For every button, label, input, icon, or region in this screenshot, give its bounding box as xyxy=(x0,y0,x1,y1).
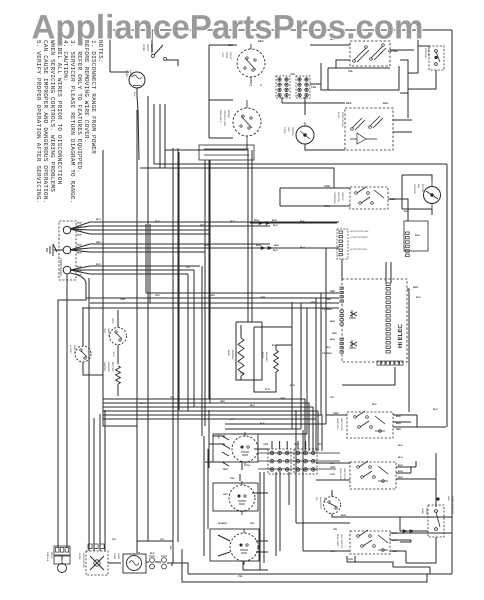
oven door switch xyxy=(428,505,444,537)
surface elem box RR xyxy=(213,483,258,511)
svg-text:RED: RED xyxy=(210,294,215,297)
svg-text:LATCH SW INPUT: LATCH SW INPUT xyxy=(350,236,369,239)
svg-text:RED: RED xyxy=(217,434,220,439)
wire left edge x204 xyxy=(203,436,205,556)
svg-text:YEL: YEL xyxy=(330,396,335,399)
conv fan motor xyxy=(296,126,314,144)
svg-text:BLU: BLU xyxy=(250,404,255,407)
wire x146b xyxy=(145,224,147,293)
svg-text:BLU: BLU xyxy=(274,244,279,247)
svg-text:TAN: TAN xyxy=(290,73,295,76)
wire x178 xyxy=(177,148,179,542)
svg-text:5. VERIFY PROPER OPERATION AFT: 5. VERIFY PROPER OPERATION AFTER SERVICI… xyxy=(35,40,42,203)
svg-text:RED: RED xyxy=(96,241,101,244)
wire x188b xyxy=(187,274,189,411)
svg-text:BLK: BLK xyxy=(272,219,277,222)
svg-text:BLK: BLK xyxy=(273,224,278,227)
svg-text:BAKE: BAKE xyxy=(227,350,230,356)
wire P3 tail xyxy=(58,273,86,548)
svg-text:BLK: BLK xyxy=(398,444,403,447)
svg-text:RED: RED xyxy=(332,332,337,335)
wire x154 xyxy=(153,104,155,164)
svg-text:N: N xyxy=(260,83,262,87)
svg-text:COOLING: COOLING xyxy=(424,48,427,58)
wire on ind xyxy=(332,490,452,517)
junction arrows right xyxy=(400,530,428,532)
svg-text:BLK: BLK xyxy=(326,346,331,349)
wire surf lf xyxy=(218,535,268,570)
svg-text:DOOR LATCH SW: DOOR LATCH SW xyxy=(350,230,369,233)
wire x103 xyxy=(103,150,137,426)
svg-text:BLK: BLK xyxy=(77,270,82,273)
HI ELEC diode 1 xyxy=(350,310,357,318)
lock module xyxy=(54,546,70,555)
svg-text:GRY: GRY xyxy=(155,294,160,297)
svg-text:ELEMENT: ELEMENT xyxy=(231,350,234,361)
svg-text:ON: ON xyxy=(315,497,318,501)
svg-text:BLK: BLK xyxy=(372,403,377,406)
wire latch comb down xyxy=(342,259,391,283)
cfs frame xyxy=(400,60,408,118)
surface element RR2 xyxy=(229,485,255,511)
cooling fan motor xyxy=(424,187,441,204)
svg-text:BLK: BLK xyxy=(260,422,265,425)
terminal pair B xyxy=(162,558,167,563)
svg-text:ELEMENT: ELEMENT xyxy=(265,352,268,363)
svg-text:BLK: BLK xyxy=(140,402,145,405)
wire bus L2-a xyxy=(90,265,200,267)
wire col x280 xyxy=(279,472,281,551)
wire col x260 xyxy=(259,472,261,570)
svg-text:BLU: BLU xyxy=(398,456,403,459)
wire bus y415 xyxy=(103,415,322,451)
svg-text:GRN: GRN xyxy=(310,301,315,304)
wire bus L2-b xyxy=(90,269,194,271)
wire blocks in xyxy=(272,441,306,449)
svg-text:YEL: YEL xyxy=(230,477,235,480)
oven light switch xyxy=(151,30,153,52)
terminal block screw P2 xyxy=(63,246,71,254)
wire x165 xyxy=(164,104,166,168)
hi-limit switch xyxy=(75,346,91,362)
HI ELEC box xyxy=(342,279,407,362)
svg-text:OVEN: OVEN xyxy=(421,508,424,515)
wire rr xyxy=(326,415,446,427)
wire fan P3 xyxy=(70,266,90,270)
svg-text:YEL: YEL xyxy=(170,396,175,399)
svg-text:BLK: BLK xyxy=(77,230,82,233)
svg-text:BLK: BLK xyxy=(398,476,403,479)
oven relay board xyxy=(345,108,393,150)
wire x252 xyxy=(251,150,253,322)
svg-text:BLK: BLK xyxy=(416,296,421,299)
wire hi elec right xyxy=(342,289,409,412)
svg-text:YEL: YEL xyxy=(250,522,255,525)
svg-text:BLK: BLK xyxy=(96,263,101,266)
svg-text:YEL: YEL xyxy=(238,575,243,578)
svg-text:BLK: BLK xyxy=(77,248,82,251)
svg-text:GRN: GRN xyxy=(111,318,114,324)
svg-text:BLK: BLK xyxy=(254,219,259,222)
svg-text:BLK: BLK xyxy=(77,244,82,247)
HI ELEC pin strip left 2 xyxy=(340,310,343,312)
wire x105 drop xyxy=(104,410,106,551)
svg-text:YEL: YEL xyxy=(240,372,245,375)
svg-text:LAMP: LAMP xyxy=(129,70,132,77)
svg-text:UNIT SWITCH: UNIT SWITCH xyxy=(340,534,343,549)
svg-text:BLK: BLK xyxy=(398,464,403,467)
TOD switch xyxy=(110,328,127,345)
wire right border xyxy=(451,30,453,574)
svg-text:TAN: TAN xyxy=(311,86,316,89)
wire x202 xyxy=(201,266,203,436)
HI ELEC diode 2 xyxy=(350,340,357,348)
svg-text:BLK: BLK xyxy=(222,522,227,525)
svg-text:OVEN: OVEN xyxy=(113,553,116,560)
svg-text:ORANGE: ORANGE xyxy=(107,362,110,372)
svg-text:LIMITED: LIMITED xyxy=(103,362,106,371)
connector strip right xyxy=(404,221,428,251)
svg-text:GRY: GRY xyxy=(223,493,228,496)
svg-text:BLU: BLU xyxy=(398,470,403,473)
wire door sw tail xyxy=(400,517,436,574)
wire lamp feed xyxy=(110,71,129,73)
wire col x276 xyxy=(275,472,277,556)
svg-text:YEL/BLK: YEL/BLK xyxy=(322,308,333,311)
svg-text:LABEL ALL WIRES PRIOR TO DISCO: LABEL ALL WIRES PRIOR TO DISCONNECTION xyxy=(56,40,63,185)
svg-text:LIGHT: LIGHT xyxy=(323,497,326,504)
wire into lock module xyxy=(58,546,67,560)
wire y424 xyxy=(225,423,326,425)
svg-text:BREAK: BREAK xyxy=(227,110,230,119)
wire bus L2-c xyxy=(90,273,188,275)
svg-text:BLK: BLK xyxy=(77,234,82,237)
wire y164 xyxy=(154,163,447,165)
wire x194 xyxy=(193,270,195,407)
svg-text:DUAL SURF: DUAL SURF xyxy=(336,534,339,547)
aux box detail xyxy=(204,149,249,155)
door latch switch xyxy=(350,187,388,209)
surface elem box LF xyxy=(210,529,259,561)
svg-text:BLK: BLK xyxy=(330,320,335,323)
svg-text:HOT: HOT xyxy=(221,52,224,58)
wire y434 xyxy=(232,433,307,435)
svg-text:BLU: BLU xyxy=(300,246,305,249)
svg-text:VIO: VIO xyxy=(318,443,322,446)
wire top border xyxy=(110,29,452,31)
wire bus y419 xyxy=(103,419,316,451)
wire x150b xyxy=(149,224,151,303)
wire fan P2 xyxy=(70,244,90,250)
clock box edge xyxy=(209,45,237,138)
terminal block screw P1 xyxy=(63,226,71,234)
svg-text:LOCK MOTOR: LOCK MOTOR xyxy=(82,553,85,568)
svg-text:TOD: TOD xyxy=(103,328,106,333)
wire j1 out xyxy=(250,222,337,224)
svg-text:DOOR: DOOR xyxy=(425,508,428,515)
svg-text:2. REFER ONLY TO FEATURES EQUI: 2. REFER ONLY TO FEATURES EQUIPPED. xyxy=(76,40,83,173)
svg-text:HI-LIMIT: HI-LIMIT xyxy=(69,345,72,354)
svg-text:ORN: ORN xyxy=(263,443,268,446)
wire sensor tail xyxy=(117,384,119,396)
wire y293 xyxy=(146,292,339,294)
svg-text:BLK: BLK xyxy=(383,102,388,105)
wire left edge x208 xyxy=(207,449,209,529)
svg-text:BLU: BLU xyxy=(273,249,278,252)
svg-text:SURF UNIT: SURF UNIT xyxy=(336,418,339,430)
svg-text:OVEN DOOR SW: OVEN DOOR SW xyxy=(451,496,454,514)
plug pins RF xyxy=(222,436,229,466)
svg-text:FAN: FAN xyxy=(417,184,420,189)
broil element xyxy=(274,350,279,372)
wire bus y411 xyxy=(103,411,318,451)
wire bus N-b xyxy=(90,247,339,249)
ON indicator light xyxy=(324,497,341,514)
svg-text:GRN: GRN xyxy=(447,496,450,501)
svg-text:VIO: VIO xyxy=(112,538,116,541)
wire x94 drop xyxy=(93,418,95,551)
svg-text:BLK: BLK xyxy=(230,220,235,223)
wire j2 out xyxy=(252,247,337,249)
connector comb A xyxy=(276,76,290,98)
svg-text:ELEC: ELEC xyxy=(337,112,340,119)
wire bus y303 xyxy=(90,302,339,304)
svg-text:AppliancePartsPros.com: AppliancePartsPros.com xyxy=(32,9,424,47)
svg-text:YEL/BLK: YEL/BLK xyxy=(322,352,333,355)
wire y168 xyxy=(140,168,334,188)
wire bus N-a xyxy=(90,243,270,245)
wire tod xyxy=(117,310,119,364)
svg-text:RED: RED xyxy=(200,224,205,227)
junction dot x436 xyxy=(437,498,440,501)
wire lamp out xyxy=(137,88,139,160)
svg-text:RED: RED xyxy=(326,298,331,301)
wire block rows xyxy=(258,453,340,469)
svg-text:OVEN: OVEN xyxy=(125,70,128,77)
svg-text:SWITCH: SWITCH xyxy=(107,328,110,337)
surface unit switch RR xyxy=(347,412,393,438)
wire x148 xyxy=(147,96,149,541)
svg-text:BLK: BLK xyxy=(290,384,295,387)
clock bottom box xyxy=(199,145,254,160)
wire x89 drop xyxy=(88,278,90,551)
svg-text:TAN: TAN xyxy=(348,558,353,561)
wire bus y407 xyxy=(103,407,313,451)
svg-text:BLK: BLK xyxy=(415,234,420,237)
wire bus N-c xyxy=(90,251,205,253)
wire dlb feeds xyxy=(310,45,414,68)
wire cfs xyxy=(408,30,436,89)
wire x321 xyxy=(320,293,322,415)
svg-text:BROIL: BROIL xyxy=(261,352,264,359)
svg-text:BLK: BLK xyxy=(218,522,223,525)
svg-text:HI ELEC: HI ELEC xyxy=(397,324,404,348)
svg-text:OVEN RELAY: OVEN RELAY xyxy=(341,112,344,128)
svg-text:BLK: BLK xyxy=(77,266,82,269)
wire x307 xyxy=(306,308,308,434)
svg-text:BLK: BLK xyxy=(133,92,136,97)
wire x205c xyxy=(204,160,206,426)
svg-text:BLK: BLK xyxy=(77,252,82,255)
broil frame xyxy=(254,327,292,392)
DLB relay box xyxy=(350,41,390,66)
surface connector block B xyxy=(294,449,317,474)
surface element LF xyxy=(230,533,258,561)
DLB relay contacts xyxy=(354,46,386,62)
svg-text:ORN: ORN xyxy=(120,298,125,301)
surface element RF xyxy=(232,436,258,462)
svg-text:SURF UNIT: SURF UNIT xyxy=(339,468,342,480)
oven lamp xyxy=(129,72,145,88)
HI ELEC pin strip mid xyxy=(386,283,390,286)
wire bus y399 xyxy=(103,399,305,451)
transformer lamp xyxy=(123,554,146,573)
svg-text:YEL: YEL xyxy=(246,464,251,467)
wire bottom bus y541 xyxy=(137,541,173,546)
wire col x264 xyxy=(263,472,265,563)
oven relay contacts xyxy=(352,116,383,130)
surface elem box RF xyxy=(213,434,258,462)
bottom link box xyxy=(347,556,430,567)
svg-text:MODULE: MODULE xyxy=(46,552,49,562)
wire fan motor down xyxy=(305,144,345,150)
svg-text:CAN CAUSE IMPROPER AND DANGERO: CAN CAUSE IMPROPER AND DANGEROUS OPERATI… xyxy=(42,40,49,203)
svg-text:BLK: BLK xyxy=(300,220,305,223)
svg-text:PROTECT: PROTECT xyxy=(111,362,114,373)
svg-text:MOTOR: MOTOR xyxy=(421,184,424,193)
ground xyxy=(47,244,63,256)
wire bottom links xyxy=(108,552,188,574)
wire bus L1-b xyxy=(90,225,270,227)
wire x210b xyxy=(209,160,211,403)
svg-text:GRN: GRN xyxy=(330,466,335,469)
svg-text:SWITCH: SWITCH xyxy=(73,345,76,354)
wire fan P1 xyxy=(70,222,90,229)
svg-text:MOTOR: MOTOR xyxy=(291,127,294,136)
svg-text:RED: RED xyxy=(294,443,299,446)
svg-text:DOOR SW COM: DOOR SW COM xyxy=(350,248,367,251)
junction arrow 1 xyxy=(266,221,270,224)
svg-text:BLU: BLU xyxy=(330,338,335,341)
svg-text:FAN SW: FAN SW xyxy=(427,48,430,57)
terminal pair A xyxy=(150,558,155,563)
wire x160 xyxy=(159,104,161,168)
wire dual feeds xyxy=(296,410,452,551)
wire x173 xyxy=(172,148,174,563)
svg-text:BLK: BLK xyxy=(77,226,82,229)
wire comb links xyxy=(282,97,327,115)
terminal block screw P3 xyxy=(63,266,71,274)
wire bake xyxy=(240,325,242,380)
wire surf feeds xyxy=(205,436,268,493)
svg-text:GRY: GRY xyxy=(230,418,235,421)
oven sensor resistor xyxy=(116,366,121,384)
svg-text:SWITCH RR: SWITCH RR xyxy=(340,418,343,431)
wire latch feeds xyxy=(280,188,408,221)
svg-text:RED: RED xyxy=(346,102,352,105)
svg-text:TAN: TAN xyxy=(330,473,335,476)
svg-text:RED: RED xyxy=(396,428,401,431)
bake element box xyxy=(236,322,262,380)
surface connector block A xyxy=(268,449,291,474)
svg-text:BLK: BLK xyxy=(155,220,160,223)
HI ELEC pin strip left 1 xyxy=(340,287,343,289)
svg-text:YEL: YEL xyxy=(333,528,338,531)
wire x137 xyxy=(136,110,138,553)
hot wire relay xyxy=(237,49,265,77)
HI ELEC pin strip bottom xyxy=(377,361,381,365)
wire x292 xyxy=(291,302,293,429)
svg-text:SWITCH: SWITCH xyxy=(341,192,344,201)
wire x326 xyxy=(325,248,327,424)
wire orb feeds xyxy=(327,103,412,132)
wire y429 xyxy=(225,428,301,430)
svg-text:AVAILABLE: AVAILABLE xyxy=(219,110,222,123)
svg-text:RED: RED xyxy=(223,468,228,471)
terminal block dashed outline xyxy=(59,221,76,280)
wire bottom border xyxy=(188,573,452,575)
wire bus y308 xyxy=(82,307,339,309)
svg-text:BLK: BLK xyxy=(150,552,155,555)
svg-text:YEL: YEL xyxy=(160,538,165,541)
DLB relay lower xyxy=(233,108,261,136)
svg-text:PROG: PROG xyxy=(50,552,53,559)
wire x248 xyxy=(247,150,249,322)
svg-text:RELAY: RELAY xyxy=(229,52,232,60)
svg-text:BLK: BLK xyxy=(413,286,418,289)
svg-text:TOD/DOOR: TOD/DOOR xyxy=(333,192,336,204)
svg-text:3. SERVICER PLEASE RETURN DIAG: 3. SERVICER PLEASE RETURN DIAGRAM TO RAN… xyxy=(69,40,76,203)
svg-text:FAN: FAN xyxy=(287,127,290,132)
svg-text:BLK: BLK xyxy=(77,222,82,225)
dual surface switch xyxy=(350,531,390,554)
svg-text:COOLING: COOLING xyxy=(413,184,416,194)
wire bus y298 xyxy=(86,297,339,299)
door lock motor xyxy=(86,551,108,575)
svg-text:BLK: BLK xyxy=(96,218,101,221)
svg-text:LAMP: LAMP xyxy=(117,553,120,559)
svg-text:CONV: CONV xyxy=(283,127,286,134)
wire bus y403 xyxy=(103,403,309,451)
svg-text:BLK: BLK xyxy=(433,408,438,411)
wire x316 xyxy=(315,298,317,419)
svg-text:YEL: YEL xyxy=(186,266,191,269)
junction arrow 2 xyxy=(268,246,272,249)
svg-text:BEFORE REMOVING WIRE COVER.: BEFORE REMOVING WIRE COVER. xyxy=(83,40,90,143)
svg-text:YEL: YEL xyxy=(348,70,353,73)
wire left top drop xyxy=(109,30,111,72)
svg-text:DOOR: DOOR xyxy=(78,553,81,560)
svg-text:L1: L1 xyxy=(249,83,253,87)
svg-text:BLK: BLK xyxy=(240,510,245,513)
wire x209c xyxy=(208,160,210,468)
cooling fan switch xyxy=(429,46,444,70)
svg-text:1. DISCONNECT RANGE FROM POWER: 1. DISCONNECT RANGE FROM POWER xyxy=(90,40,97,154)
wire lr xyxy=(316,453,436,507)
svg-text:RED: RED xyxy=(220,400,225,403)
wire bus L1-a xyxy=(90,221,339,223)
relay frame box xyxy=(310,63,399,90)
wire clock links xyxy=(165,100,247,150)
connector comb B xyxy=(296,76,310,98)
wire x100 drop xyxy=(99,414,101,551)
HI ELEC pin strip left 3 xyxy=(340,338,343,340)
svg-text:BLK: BLK xyxy=(169,546,172,551)
wire col x289 xyxy=(288,472,290,505)
svg-text:W-R: W-R xyxy=(265,388,270,391)
wire hi-limit xyxy=(83,308,103,375)
svg-text:TERM BLOCK: TERM BLOCK xyxy=(59,258,63,276)
